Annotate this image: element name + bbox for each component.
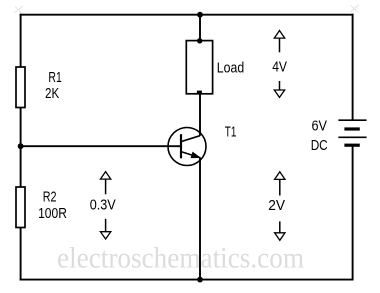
svg-text:R1: R1 <box>48 70 61 86</box>
voltage arrow 0.3V down triangle <box>100 232 110 239</box>
wire right border lower (battery to bottom) <box>352 146 354 281</box>
faint mark top-right <box>350 5 359 13</box>
voltage arrow 4V upper shaft <box>279 38 281 52</box>
wire transistor emitter to bottom border <box>199 157 201 280</box>
wire top border <box>20 14 354 16</box>
svg-text:R2: R2 <box>43 190 57 206</box>
node dot at load top pin <box>197 38 202 43</box>
svg-text:6V: 6V <box>312 119 328 135</box>
battery B1 short thick plate upper <box>344 127 359 130</box>
battery B1 short thick plate lower <box>344 144 359 147</box>
voltage arrow 2V up triangle <box>275 172 285 180</box>
resistor R2 body <box>16 187 25 228</box>
wire right border upper (to battery) <box>352 14 354 120</box>
battery B1 long plate top <box>338 119 366 121</box>
transistor T1 emitter arrowhead <box>191 152 200 157</box>
transistor T1 base bar <box>180 134 182 158</box>
voltage arrow 0.3V upper shaft <box>105 179 107 194</box>
wire center collector branch (top border to Load) <box>199 14 201 41</box>
svg-text:electroschematics.com: electroschematics.com <box>57 243 304 275</box>
wire left border lower (R2 to bottom) <box>20 227 22 281</box>
svg-text:Load: Load <box>217 61 244 77</box>
voltage arrow 2V lower shaft <box>279 221 281 232</box>
wire left border upper (to R1) <box>20 14 22 68</box>
voltage arrow 4V lower shaft <box>279 81 281 90</box>
node junction left (base line / left border) <box>18 143 24 149</box>
svg-text:2V: 2V <box>268 198 285 214</box>
voltage arrow 0.3V lower shaft <box>105 219 107 232</box>
wire left border middle (R1 to R2) <box>20 107 22 188</box>
node junction top (collector branch / top border) <box>197 12 203 18</box>
transistor T1 collector diagonal <box>181 136 200 142</box>
wire base line <box>20 145 182 147</box>
faint mark top-left <box>14 6 23 14</box>
voltage arrow 2V upper shaft <box>279 179 281 195</box>
svg-text:DC: DC <box>311 138 328 154</box>
voltage arrow 0.3V up triangle <box>100 172 110 180</box>
svg-text:0.3V: 0.3V <box>90 198 116 214</box>
svg-text:2K: 2K <box>45 86 59 102</box>
resistor R1 body <box>16 67 25 108</box>
transistor T1 circle <box>168 128 206 166</box>
pin square at load bottom <box>197 91 202 94</box>
voltage arrow 4V up triangle <box>274 31 284 39</box>
voltage arrow 4V down triangle <box>274 90 284 97</box>
transistor T1 emitter diagonal <box>181 152 200 158</box>
svg-text:100R: 100R <box>38 206 67 222</box>
svg-text:T1: T1 <box>225 125 237 141</box>
load resistor body <box>186 41 212 94</box>
wire Load to transistor collector <box>199 94 201 136</box>
battery B1 long plate bottom <box>338 136 366 138</box>
node junction bottom (emitter / bottom border) <box>197 277 203 283</box>
voltage arrow 2V down triangle <box>275 233 285 241</box>
wire bottom border <box>20 279 354 281</box>
svg-text:4V: 4V <box>272 59 287 75</box>
